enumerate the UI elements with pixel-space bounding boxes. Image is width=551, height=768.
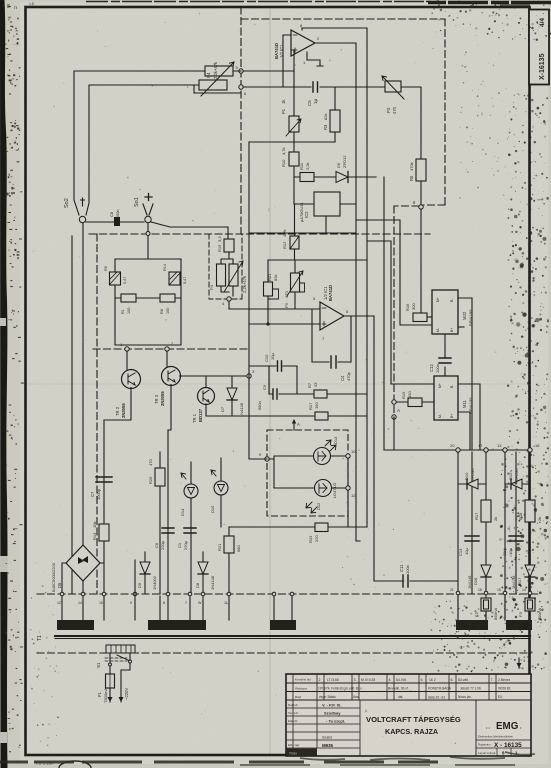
transformer T1 secondary windings [57, 620, 94, 630]
switch S1 [96, 653, 132, 668]
capacitor C7 1000u [90, 420, 112, 594]
wire IC2 output [340, 203, 356, 205]
transistor TR2 2N3055 [115, 351, 141, 418]
resistor R12 4,7k [282, 204, 299, 260]
fuse F3 800mA [518, 598, 542, 620]
diode D9 1N4002 [137, 552, 157, 594]
bus wire C [366, 28, 368, 527]
wire right columns [458, 452, 530, 620]
wire terminal drops left [62, 560, 135, 620]
node A [392, 400, 396, 404]
drawing number box top-right: X-16135 [529, 10, 549, 85]
op-amp U1a 1/2 IC1 BA741D [274, 23, 320, 65]
wire So1 rail into driver box [147, 223, 149, 259]
pcb boundary dashed bottom row 2 [37, 652, 531, 654]
wire So2 down to rectifier [82, 223, 84, 545]
wire meter supply rail [384, 449, 530, 451]
resistor R7 33 [297, 382, 367, 398]
bus wire feeds [356, 220, 432, 325]
node on dashed rail y87 [239, 85, 243, 89]
node on dashed rail y71 [239, 69, 243, 73]
wire terminal drops mid [274, 594, 292, 620]
wire M32 B- stub [458, 326, 464, 328]
wire So1 to regulator chain [151, 222, 228, 239]
top edge scan line [86, 1, 430, 3]
capacitor C8 100n [86, 210, 144, 226]
wire terminal drops right [458, 596, 530, 620]
capacitor C4 470p feedback [312, 309, 351, 381]
wire y87 to C5 and P2 [243, 86, 421, 88]
capacitor C12 100n [429, 334, 451, 376]
wire left rail down [71, 236, 73, 594]
pcb boundary dashed line right vertical [444, 19, 446, 205]
capacitor C10 10u [249, 353, 297, 371]
zener D11 ZPD30 [505, 468, 530, 489]
op-amp U1b 1/2 IC1 BA741D [313, 285, 349, 341]
trimmer potentiometer 2,2k+47k [209, 252, 247, 296]
resistor R20 470 [148, 452, 165, 594]
wire output sense loop inner [89, 85, 200, 203]
arrow T output right [517, 658, 527, 668]
wire TR3 emitter down [168, 385, 171, 431]
wire emitter rail y416 [206, 404, 367, 416]
resistor R21 82k rheostat [264, 260, 279, 324]
node 13 [503, 448, 507, 452]
bridge rectifier D5 B40C5000 [51, 545, 104, 594]
capacitor C11 100n [374, 564, 458, 587]
capacitor C5 1u [307, 82, 318, 106]
resistor R6 470k [409, 87, 426, 205]
node 8 [419, 205, 423, 209]
wire op-amp output to R2 [315, 42, 356, 44]
wire op-amp U1b output [344, 315, 374, 317]
fuse F1 T800mA [97, 666, 115, 703]
wire node8 down to module M32 [420, 209, 422, 317]
secondary terminal row [60, 592, 64, 596]
wire D6 to bus [383, 177, 385, 450]
pcb boundary dashed line top horizontal [241, 18, 445, 20]
resistor R17b 2k [474, 500, 498, 522]
resistor R3 82k [323, 87, 340, 142]
node 12 [346, 486, 350, 490]
resistor R14 0,47 [163, 264, 187, 285]
voltage regulator IC2 [299, 192, 340, 222]
wire IC2 input [294, 203, 314, 205]
wire R3 bottom row [249, 141, 335, 143]
node 20 [456, 448, 460, 452]
smudge marks under title block [300, 752, 535, 760]
node 1 base TR2 [125, 347, 129, 351]
capacitor C14 10u [502, 536, 523, 556]
resistor R10 4,7k [281, 147, 299, 167]
resistor R17 150 [308, 402, 328, 420]
wire LED box feed arrow A [292, 419, 300, 430]
transistor TR3 2N3055 [154, 351, 181, 406]
capacitor C6 220u [154, 430, 174, 594]
potentiometer P3 470 [284, 260, 305, 309]
node 2 base TR3 [165, 347, 169, 351]
resistor R21 680 [217, 527, 241, 594]
resistor R19 150 [394, 391, 434, 407]
diode D8 1N4148 [195, 552, 215, 594]
pcb boundary dashed base line [93, 348, 250, 350]
pcb boundary dashed line top vertical [240, 7, 242, 234]
LED D14 [180, 462, 198, 594]
potentiometer P4 2,2k+47k [194, 61, 241, 96]
transformer core line [55, 635, 530, 637]
pcb boundary dashed left vertical [96, 234, 98, 594]
terminal So1 (plus) [134, 194, 153, 223]
bottom edge scan marks [0, 761, 438, 764]
capacitor C9 680n [257, 366, 297, 410]
resistor R11 2,2k [294, 162, 336, 181]
wire divider row y260 [268, 259, 367, 261]
primary winding [106, 645, 135, 653]
wire trimmer to op-amp U1b input [229, 301, 320, 309]
resistor R8 100 [160, 294, 175, 314]
title block [286, 674, 531, 756]
wire non-inverting input [291, 50, 294, 71]
wire IC2 ground [249, 216, 356, 233]
diode D7 1N4148 [220, 376, 244, 417]
wire M32 B+ down right [458, 298, 472, 450]
transistor TR1 BD137 [192, 376, 215, 423]
meter module M11 BPM199 [434, 376, 473, 420]
wire op-amp pin1 stub [307, 52, 323, 66]
wire inverting input [283, 35, 291, 87]
pcb boundary dashed horizontal mid [89, 233, 430, 235]
resistor R23 220 [229, 523, 367, 543]
node 16 [528, 448, 532, 452]
node 17 [484, 448, 488, 452]
LED D13 [274, 436, 348, 465]
wire output sense loop outer [74, 71, 238, 200]
resistor R1 100 [115, 294, 181, 314]
wire inverting feedback column [293, 71, 295, 204]
capacitor C1 220u [184, 528, 196, 533]
wire indicator returns [347, 458, 349, 527]
pcb boundary dashed bottom row 1 [37, 593, 540, 595]
resistor R9 0,47 [104, 266, 127, 285]
bus wire B [373, 316, 375, 581]
node 6 on dashed [392, 415, 396, 419]
resistor R13 10k [92, 522, 109, 541]
diode D17 1N4148 [512, 565, 535, 589]
pcb boundary dashed link to node 8 [394, 205, 445, 417]
LED D15 [210, 458, 228, 527]
meter module M32 BPM199 [432, 290, 473, 334]
bus wire A [356, 43, 360, 541]
resistor R18 2k [518, 500, 542, 522]
wire M11 B pins down [458, 384, 480, 450]
driver stage enclosure [115, 259, 181, 345]
wire TR2 emitter down [104, 388, 131, 421]
trimmer P4b dashed enclosure [209, 234, 242, 299]
wire indicator feed [249, 456, 274, 488]
diode D16 1N4148 [468, 565, 491, 589]
scan margin strip [0, 0, 24, 768]
terminal So2 (minus) [64, 198, 89, 223]
wire to op-amp lower input [249, 323, 320, 325]
potentiometer P2 470 [382, 76, 404, 114]
resistor R16 300 [405, 303, 432, 322]
wire op-amp pin8 to right rail [302, 28, 367, 30]
wire node71 to op-amp [243, 70, 294, 72]
LED D12 [274, 480, 348, 514]
resistor R15 3,3 [217, 236, 234, 252]
indicator dashed enclosure [267, 430, 348, 516]
fuse F2 800mA [474, 598, 498, 620]
potentiometer P1 1k [281, 99, 301, 136]
mains arrows ~220V [108, 663, 131, 702]
node 9 output indicator [265, 457, 269, 461]
long vertical node3 column [248, 142, 250, 459]
wire TR3 collector to node 3 [180, 375, 250, 377]
zener D10 ZPD30 [458, 468, 486, 489]
capacitor C13 10u [458, 536, 479, 556]
node 4 below trimmer [227, 297, 231, 301]
zener diode D6 ZPD12 [336, 155, 376, 183]
node 10 [346, 454, 350, 458]
